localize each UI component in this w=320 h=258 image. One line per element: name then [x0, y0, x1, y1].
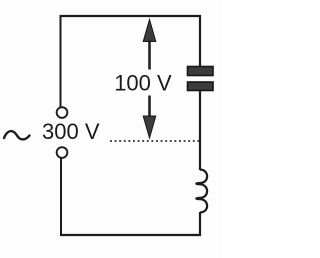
- wire: left vertical upper segment: [60, 15, 62, 107]
- wire: right vertical bottom segment (inductor to bottom): [199, 212, 201, 236]
- voltage arrow: up arrowhead: [143, 20, 156, 42]
- wire: right vertical top segment (to capacitor): [199, 15, 201, 67]
- dotted reference line: [110, 140, 199, 142]
- svg-text:100 V: 100 V: [114, 71, 172, 96]
- wire: left vertical lower segment: [60, 159, 62, 237]
- voltage arrow: lower shaft: [148, 96, 151, 118]
- svg-text:300 V: 300 V: [42, 119, 100, 144]
- voltage arrow: upper shaft: [148, 40, 151, 70]
- capacitor C (bottom plate): [188, 82, 214, 91]
- wire: right vertical middle segment (capacitor to inductor): [199, 91, 201, 171]
- node: source top terminal: [57, 107, 68, 118]
- wire: bottom horizontal: [60, 234, 201, 236]
- voltage arrow: down arrowhead: [143, 116, 156, 138]
- AC source symbol ~: [4, 131, 30, 139]
- inductor L (coil): [196, 170, 207, 213]
- wire: top horizontal: [60, 15, 202, 17]
- capacitor C (top plate): [188, 67, 214, 76]
- node: source bottom terminal: [57, 147, 68, 158]
